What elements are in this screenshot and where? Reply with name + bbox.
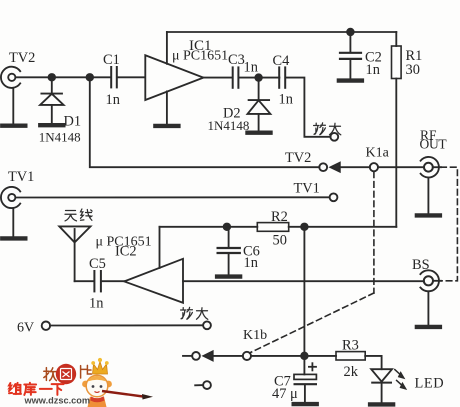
ground (IC1): [155, 125, 178, 127]
wire IC2 output to BS: [183, 280, 424, 282]
node D2 tap: [255, 74, 262, 81]
svg-text:TV2: TV2: [285, 150, 311, 166]
node C2 tap: [347, 29, 354, 36]
node TV2 branch tap: [87, 74, 94, 81]
wire top bus: [167, 31, 396, 33]
ground (BS): [417, 326, 440, 328]
resistor R1: [392, 46, 402, 79]
svg-text:OUT: OUT: [420, 137, 448, 152]
wire down from R2 row to K1b row: [303, 227, 305, 356]
wire K1a to RF OUT: [378, 166, 424, 168]
svg-text:BS: BS: [412, 257, 430, 273]
svg-text:D1: D1: [64, 114, 82, 130]
switch K1a wiper arrow: [331, 163, 340, 172]
terminal fangda 2: [203, 321, 211, 329]
wire R2 to R1 vertical: [289, 226, 397, 228]
svg-text:1n: 1n: [244, 60, 258, 76]
wire top bus corner to R1: [395, 32, 397, 46]
resistor R2: [257, 223, 288, 232]
switch K1a pole: [370, 163, 378, 171]
svg-text:R2: R2: [271, 209, 288, 225]
wire TV2 input row: [16, 76, 112, 78]
ground (RF OUT): [417, 214, 440, 216]
wire IC1 output: [203, 77, 232, 79]
node D1 tap: [49, 74, 56, 81]
svg-text:TV1: TV1: [8, 169, 34, 185]
terminal fangda 1: [330, 133, 338, 141]
svg-text:IC2: IC2: [115, 244, 137, 260]
paintbrush: [102, 391, 143, 397]
ground (C7): [294, 403, 317, 405]
wire TV1 row: [16, 196, 330, 198]
op-amp IC2: [124, 259, 183, 303]
C7 plus sign: [309, 363, 316, 370]
mascot head: [86, 375, 108, 397]
svg-text:C3: C3: [228, 52, 245, 68]
svg-text:1N4148: 1N4148: [208, 118, 250, 133]
svg-text:1n: 1n: [106, 92, 120, 108]
wire 6V to fangda terminal: [50, 324, 203, 326]
svg-text:R3: R3: [342, 338, 359, 354]
connector RF OUT: [421, 157, 441, 213]
svg-text:TV1: TV1: [294, 181, 320, 197]
svg-text:50: 50: [273, 233, 287, 249]
svg-text:TV2: TV2: [9, 50, 35, 66]
capacitor C6: [218, 227, 240, 275]
ground (C6): [217, 276, 240, 278]
mascot crown: [93, 362, 108, 375]
ground (TV1 connector): [2, 237, 25, 239]
svg-text:2k: 2k: [344, 364, 359, 380]
wire arrow to K1b: [213, 355, 243, 357]
wire IC1 ground leg: [166, 91, 168, 123]
svg-text:1n: 1n: [244, 255, 258, 271]
pian char (brown): [81, 365, 92, 378]
wire arrow to K1a: [340, 166, 370, 168]
wire C3 to C4: [239, 77, 280, 79]
wire C5 to IC2: [101, 280, 124, 282]
ground (D2): [248, 132, 271, 134]
wire lower contact stub: [195, 384, 203, 386]
capacitor C5: [94, 271, 101, 291]
svg-text:1n: 1n: [279, 92, 293, 108]
ground (LED): [370, 403, 393, 405]
connector TV1: [1, 187, 20, 236]
LED emission arrows: [395, 370, 406, 389]
capacitor C1: [111, 67, 117, 87]
capacitor C3: [233, 67, 239, 87]
wire IC1 feedback up: [166, 32, 168, 64]
wire antenna to C5: [75, 280, 94, 282]
dashed link RF OUT to BS: [441, 167, 458, 281]
connector TV2: [1, 67, 20, 124]
zhao char (brown): [44, 368, 57, 381]
ground (TV2 connector): [2, 125, 25, 127]
svg-text:1n: 1n: [366, 62, 380, 78]
wire R3 to LED: [365, 356, 381, 369]
weiku yixia red text: [9, 383, 64, 395]
svg-text:C4: C4: [273, 53, 290, 69]
wire R2 row left: [160, 226, 258, 228]
node K1b C7 junction: [301, 353, 308, 360]
svg-text:LED: LED: [415, 376, 445, 392]
svg-text:μ PC1651: μ PC1651: [172, 49, 228, 64]
connector BS: [420, 270, 441, 324]
capacitor C7 electrolytic: [294, 356, 316, 402]
capacitor C2: [340, 32, 361, 78]
wire R1 down to R2 row: [395, 79, 397, 227]
diode D1: [40, 77, 64, 123]
watermark mascot and logo: [9, 358, 153, 407]
ground (D1): [40, 124, 63, 126]
diode D2: [248, 78, 271, 131]
antenna symbol: [59, 226, 90, 281]
dashed link K1a to K1b: [250, 172, 374, 353]
svg-text:1n: 1n: [89, 296, 103, 312]
svg-text:C1: C1: [103, 52, 120, 68]
terminal TV1 contact: [330, 193, 338, 201]
svg-text:1N4148: 1N4148: [39, 130, 81, 145]
node C6 tap: [224, 224, 231, 231]
wire C1 to IC1: [117, 76, 145, 78]
svg-text:6V: 6V: [17, 321, 34, 336]
wire IC2 feedback up: [159, 227, 161, 268]
red circle with tu char: [56, 364, 76, 384]
label fangda 1 (Chinese: amplify): [314, 123, 341, 135]
op-amp IC1: [145, 55, 203, 100]
switch K1b pole: [243, 352, 251, 360]
svg-text:30: 30: [406, 62, 420, 78]
svg-text:K1b: K1b: [243, 328, 267, 343]
LED D3: [371, 369, 392, 402]
label tianxian (Chinese: antenna): [65, 209, 92, 221]
terminal K1b contact: [192, 352, 200, 360]
node R2 down tap: [301, 224, 308, 231]
wire C4 to fangda terminal: [285, 78, 330, 137]
svg-text:47 μ: 47 μ: [272, 386, 298, 402]
terminal 6V: [42, 322, 50, 330]
mascot body: [88, 397, 107, 407]
resistor R3: [336, 352, 365, 360]
wire K1b to R3: [251, 355, 336, 357]
svg-text:C5: C5: [89, 256, 106, 272]
svg-text:www.dzsc.com: www.dzsc.com: [24, 396, 91, 406]
switch K1b wiper arrow: [204, 351, 213, 360]
wire K1b left stub: [183, 355, 192, 357]
svg-text:K1a: K1a: [366, 146, 390, 161]
mascot eyes and mouth: [92, 385, 95, 388]
terminal lower contact: [203, 381, 211, 389]
label fangda 2 (Chinese: amplify): [181, 307, 208, 319]
mascot ears: [82, 381, 89, 388]
wire TV2 branch down: [90, 77, 319, 167]
capacitor C4: [279, 67, 285, 87]
terminal TV2 contact: [319, 163, 327, 171]
ground (C2): [339, 80, 362, 82]
